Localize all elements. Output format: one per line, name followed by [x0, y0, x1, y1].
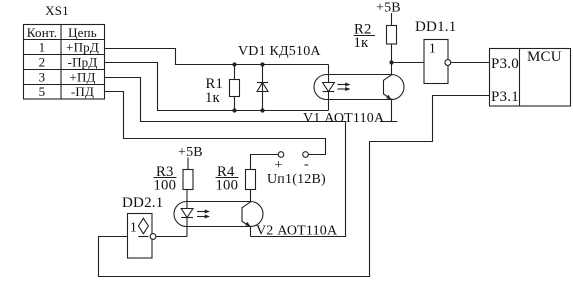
- svg-text:1: 1: [429, 41, 436, 56]
- svg-text:+5В: +5В: [376, 1, 401, 16]
- svg-text:-ПД: -ПД: [71, 84, 94, 99]
- svg-text:+ПД: +ПД: [69, 70, 95, 85]
- svg-text:P3.0: P3.0: [491, 56, 519, 72]
- svg-text:+: +: [275, 158, 283, 173]
- svg-text:1к: 1к: [354, 35, 370, 51]
- svg-text:1к: 1к: [205, 90, 221, 106]
- svg-text:Цепь: Цепь: [68, 25, 97, 40]
- svg-text:-: -: [304, 157, 309, 172]
- svg-text:100: 100: [216, 178, 239, 194]
- svg-text:-ПрД: -ПрД: [68, 55, 98, 70]
- svg-text:VD1 КД510А: VD1 КД510А: [238, 44, 321, 59]
- svg-text:XS1: XS1: [45, 3, 69, 18]
- svg-text:100: 100: [154, 178, 177, 194]
- svg-text:3: 3: [39, 70, 46, 85]
- svg-text:5: 5: [39, 84, 46, 99]
- svg-text:V2 АОТ110А: V2 АОТ110А: [256, 224, 338, 239]
- svg-text:2: 2: [39, 55, 46, 70]
- svg-text:DD2.1: DD2.1: [122, 195, 163, 211]
- svg-text:+ПрД: +ПрД: [66, 40, 99, 55]
- svg-text:MCU: MCU: [527, 49, 562, 65]
- svg-text:+5В: +5В: [178, 145, 203, 160]
- svg-text:DD1.1: DD1.1: [415, 19, 456, 35]
- svg-text:1: 1: [39, 40, 46, 55]
- svg-text:1: 1: [130, 220, 137, 235]
- svg-text:Uп1(12В): Uп1(12В): [267, 172, 326, 187]
- svg-text:P3.1: P3.1: [491, 89, 519, 105]
- svg-text:Конт.: Конт.: [27, 25, 57, 40]
- svg-text:V1 АОТ110А: V1 АОТ110А: [303, 111, 385, 126]
